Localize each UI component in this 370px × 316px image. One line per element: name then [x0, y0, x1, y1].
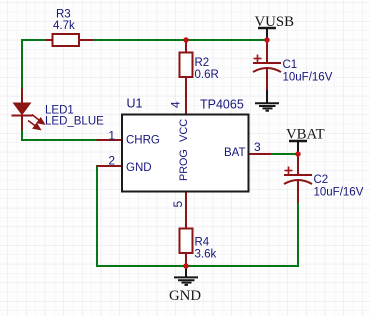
- wire net VUSB: R3 left end to LED1 anode (corner at top-left): [22, 40, 46, 90]
- svg-text:3.6k: 3.6k: [195, 249, 217, 261]
- ground symbol GND at bottom rail: [169, 266, 201, 304]
- junction: R2 top on VUSB rail: [183, 37, 188, 42]
- svg-text:BAT: BAT: [224, 147, 246, 159]
- svg-text:TP4065: TP4065: [200, 98, 244, 112]
- capacitor C2 10uF/16V (polarized): [284, 154, 364, 203]
- svg-text:CHRG: CHRG: [126, 135, 160, 147]
- capacitor C1 10uF/16V (polarized): [253, 40, 333, 91]
- svg-text:0.6R: 0.6R: [195, 69, 219, 81]
- wire net VUSB: R3 right end through R2 junction to VUSB power port: [92, 39, 267, 41]
- svg-text:10uF/16V: 10uF/16V: [314, 187, 364, 199]
- svg-text:U1: U1: [127, 97, 143, 111]
- junction: R4 bottom on GND rail: [183, 263, 188, 268]
- svg-text:C1: C1: [283, 59, 298, 71]
- resistor R3 4.7k: [46, 9, 93, 47]
- svg-text:R3: R3: [56, 9, 71, 21]
- svg-text:3: 3: [254, 140, 261, 154]
- pin 3 BAT stub: [248, 153, 271, 155]
- U1 body: [122, 115, 249, 192]
- resistor R2 0.6R: [180, 40, 219, 114]
- svg-text:PROG: PROG: [178, 149, 190, 181]
- C1 polarity plus sign: [254, 55, 262, 63]
- svg-text:VCC: VCC: [178, 119, 190, 142]
- svg-text:R2: R2: [195, 57, 210, 69]
- svg-text:10uF/16V: 10uF/16V: [283, 72, 333, 84]
- svg-text:4: 4: [169, 101, 183, 108]
- svg-text:GND: GND: [169, 288, 201, 304]
- pin 2 GND stub: [97, 165, 123, 167]
- wire net GND: U1 pin 2 down and along bottom rail up to C2 bottom: [97, 165, 298, 266]
- LED emission arrows: [28, 115, 44, 130]
- resistor R4 3.6k: [180, 192, 217, 266]
- C2 polarity plus sign: [285, 167, 293, 175]
- svg-text:VUSB: VUSB: [255, 14, 295, 30]
- power port VUSB: [255, 14, 295, 40]
- svg-text:GND: GND: [126, 162, 152, 174]
- svg-text:VBAT: VBAT: [286, 127, 325, 143]
- junction: VBAT power port / C2: [295, 151, 300, 156]
- pin 1 CHRG stub: [97, 139, 123, 141]
- power port VBAT: [286, 127, 325, 155]
- junction: VUSB power port / C1: [264, 37, 269, 42]
- wire net VBAT: U1 pin 3 to VBAT junction: [270, 153, 298, 155]
- svg-text:2: 2: [108, 154, 115, 168]
- IC U1 TP4065: [97, 97, 272, 208]
- svg-text:R4: R4: [195, 237, 210, 249]
- svg-text:1: 1: [108, 129, 115, 143]
- LED LED1 LED_BLUE: [12, 88, 105, 130]
- wire: LED1 cathode to U1 pin 1 CHRG: [22, 129, 97, 140]
- svg-text:C2: C2: [314, 174, 329, 186]
- svg-text:5: 5: [171, 201, 185, 208]
- ground symbol under C1: [255, 90, 279, 111]
- svg-text:LED_BLUE: LED_BLUE: [45, 116, 104, 128]
- svg-text:4.7k: 4.7k: [53, 20, 75, 32]
